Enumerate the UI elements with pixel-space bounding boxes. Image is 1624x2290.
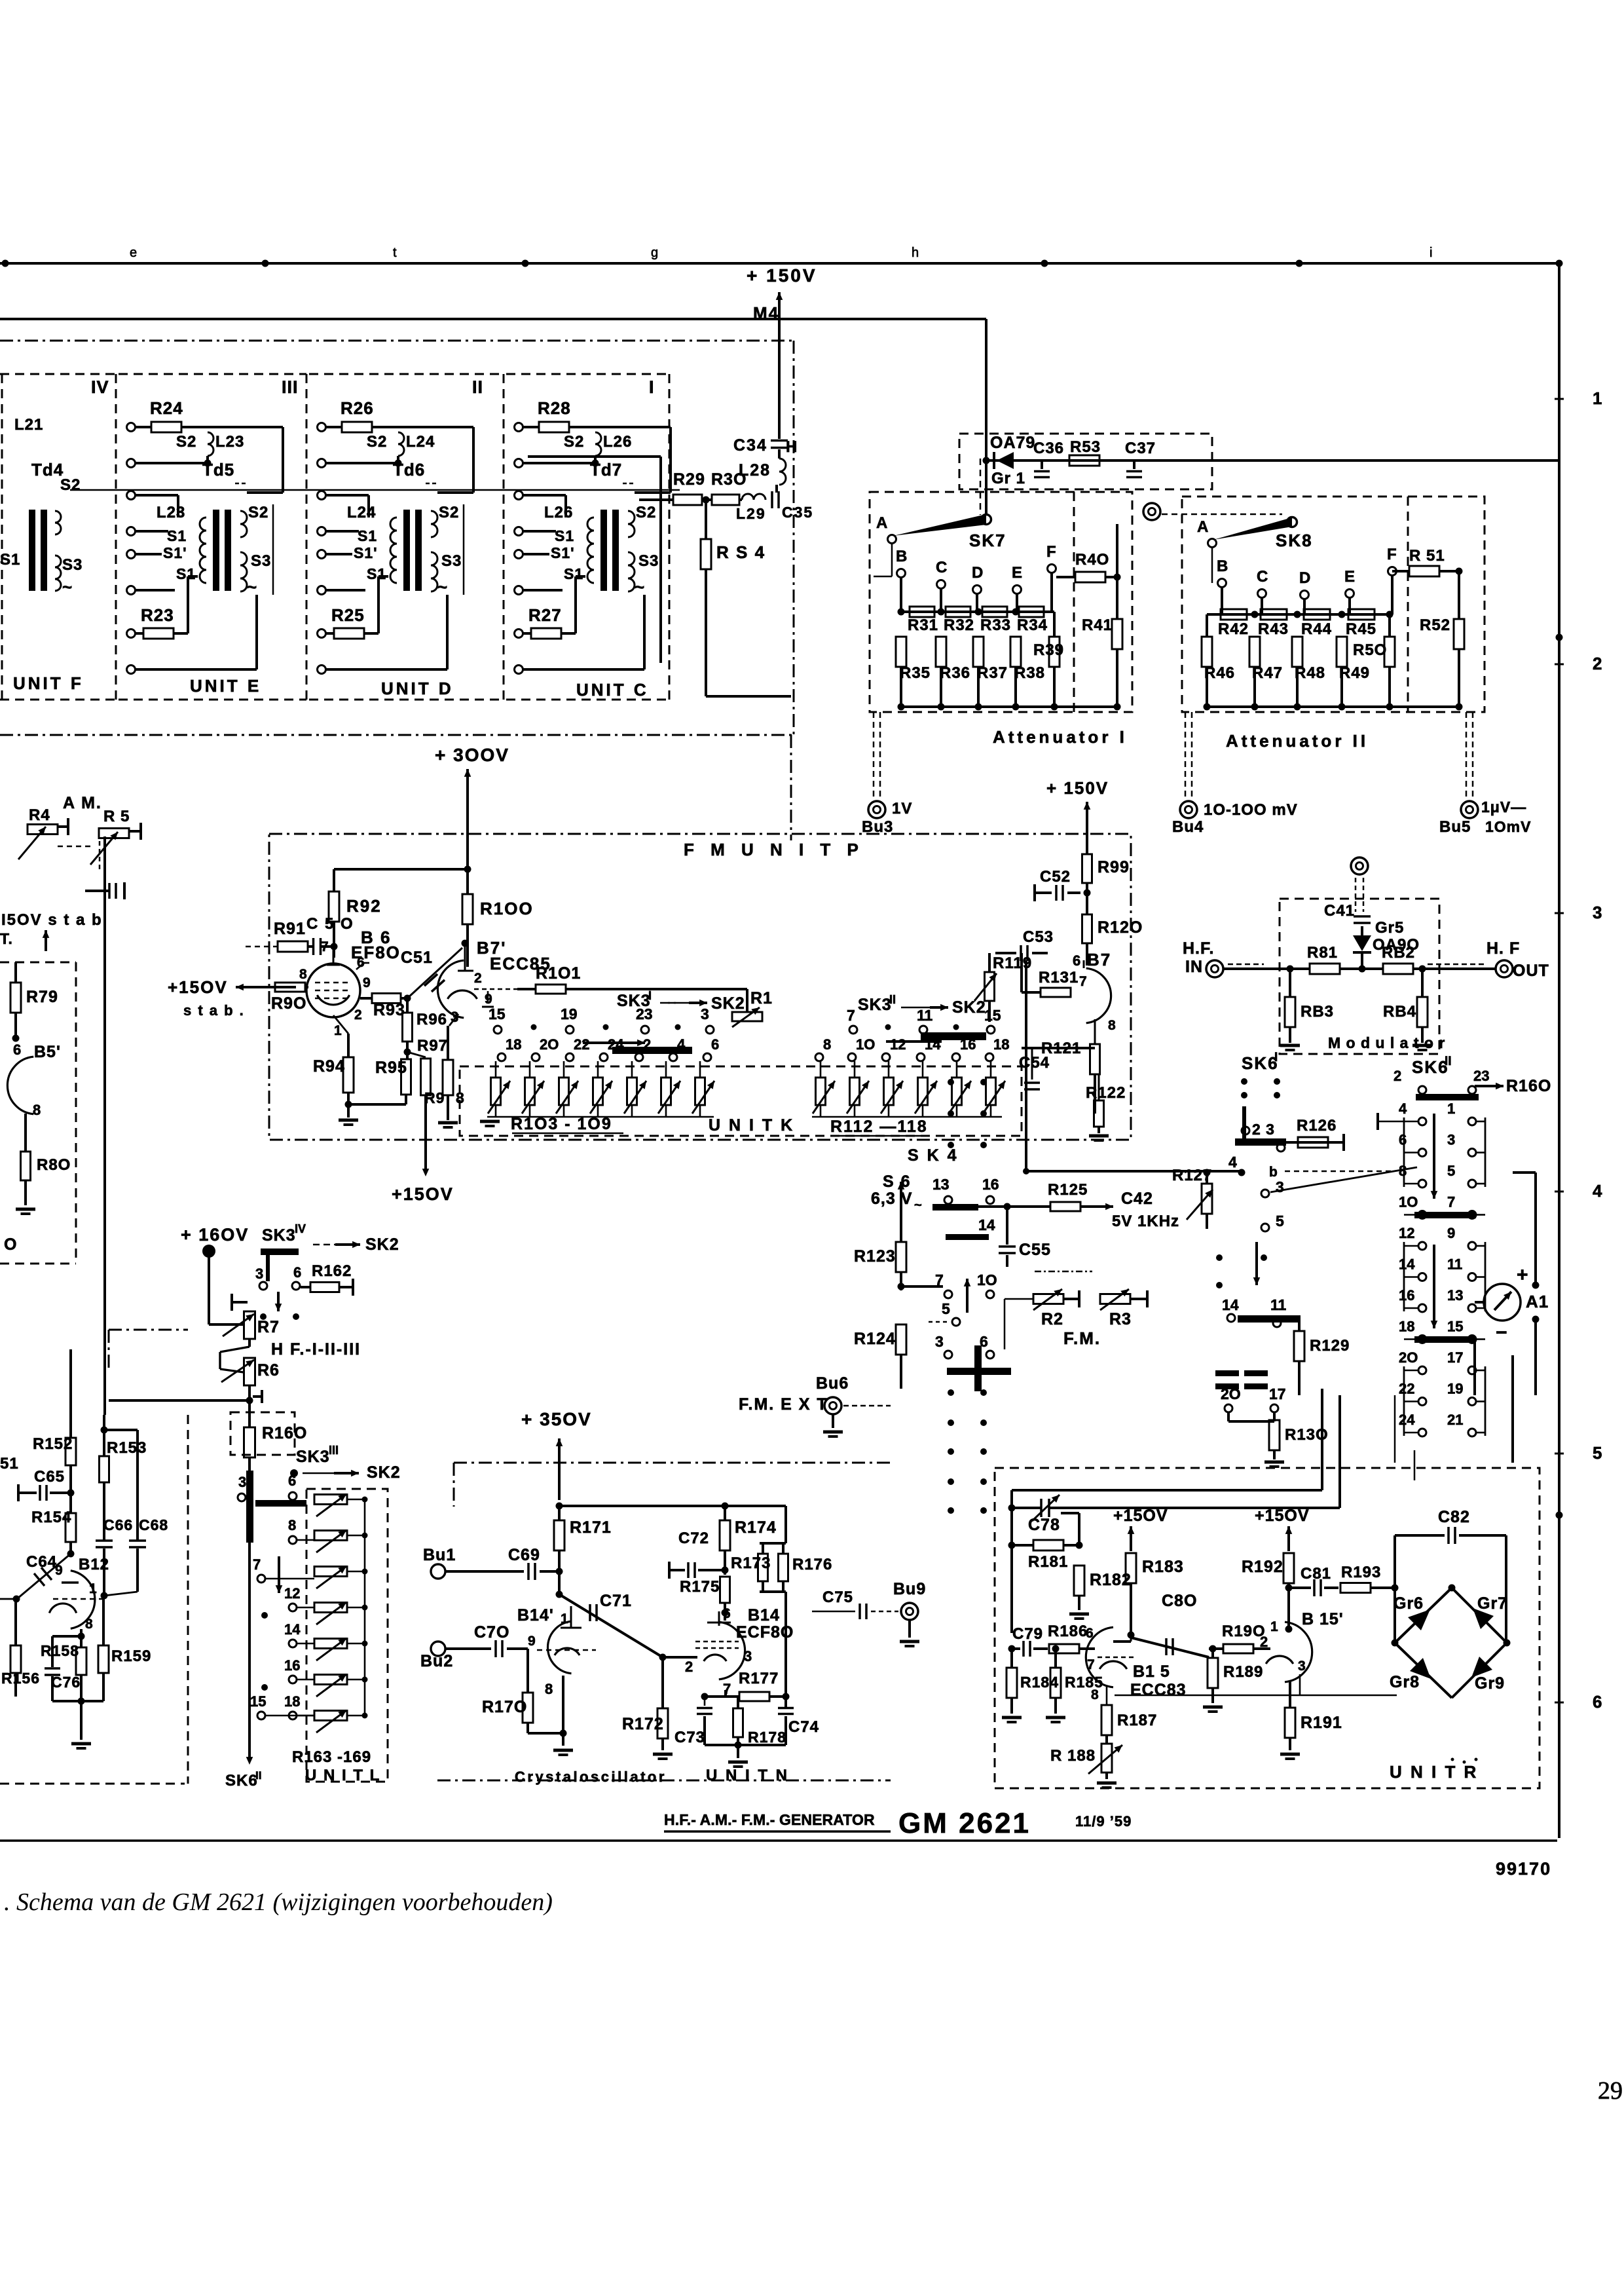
svg-text:14: 14 (1399, 1256, 1415, 1273)
svg-text:B14: B14 (748, 1606, 780, 1624)
svg-text:RB4: RB4 (1383, 1003, 1416, 1021)
svg-text:5V 1KHz: 5V 1KHz (1112, 1212, 1179, 1230)
svg-text:R49: R49 (1339, 664, 1370, 682)
svg-text:6: 6 (1399, 1132, 1407, 1148)
svg-text:R9: R9 (424, 1089, 445, 1106)
svg-text:8: 8 (85, 1617, 93, 1632)
svg-text:C73: C73 (674, 1729, 705, 1746)
svg-text:+ 150V: + 150V (1046, 778, 1109, 798)
svg-text:R24: R24 (150, 398, 183, 418)
svg-text:2: 2 (354, 1007, 362, 1023)
svg-text:S3: S3 (62, 556, 83, 574)
svg-text:R25: R25 (331, 605, 365, 625)
svg-text:7: 7 (847, 1007, 855, 1024)
svg-text:F M U N I T P: F M U N I T P (684, 840, 864, 859)
svg-text:22: 22 (1399, 1381, 1414, 1397)
svg-text:8: 8 (1108, 1018, 1116, 1033)
svg-text:S3: S3 (638, 552, 659, 570)
svg-text:C71: C71 (600, 1592, 632, 1610)
svg-text:R38: R38 (1014, 664, 1045, 682)
svg-text:OUT: OUT (1513, 962, 1549, 980)
svg-text:C79: C79 (1012, 1625, 1043, 1643)
svg-text:R123: R123 (854, 1247, 896, 1266)
svg-text:R99: R99 (1098, 858, 1130, 876)
svg-text:R162: R162 (312, 1262, 352, 1280)
svg-text:D: D (1299, 569, 1311, 587)
svg-text:L26: L26 (603, 433, 632, 451)
svg-text:Crystaloscillator: Crystaloscillator (515, 1769, 667, 1785)
svg-text:9: 9 (528, 1634, 536, 1649)
svg-text:S1: S1 (167, 527, 187, 544)
svg-text:IN: IN (1185, 958, 1203, 976)
svg-text:Bu1: Bu1 (423, 1546, 456, 1564)
svg-text:U N I T N: U N I T N (706, 1767, 789, 1784)
svg-text:R1O1: R1O1 (536, 964, 581, 983)
svg-text:Gr 1: Gr 1 (991, 470, 1025, 487)
svg-text:F.M. E X T: F.M. E X T (739, 1395, 828, 1414)
svg-text:R178: R178 (748, 1729, 786, 1746)
svg-text:C69: C69 (508, 1546, 540, 1564)
svg-text:11: 11 (917, 1007, 933, 1024)
svg-text:Td6: Td6 (393, 460, 425, 479)
svg-text:R94: R94 (313, 1057, 345, 1076)
svg-text:3: 3 (238, 1474, 246, 1490)
svg-text:R2: R2 (1041, 1310, 1063, 1328)
svg-text:1: 1 (1447, 1100, 1455, 1117)
svg-text:2: 2 (1593, 654, 1602, 673)
svg-text:R153: R153 (107, 1439, 147, 1457)
svg-text:+ 16OV: + 16OV (181, 1225, 249, 1245)
svg-text:7: 7 (1079, 974, 1087, 989)
svg-text:16: 16 (960, 1036, 976, 1053)
svg-text:R193: R193 (1341, 1564, 1381, 1581)
svg-text:U N I T R: U N I T R (1390, 1762, 1478, 1782)
svg-text:H F.-I-II-III: H F.-I-II-III (271, 1340, 361, 1359)
svg-text:S1: S1 (0, 551, 20, 569)
svg-text:S1: S1 (358, 527, 377, 544)
svg-text:SK3: SK3 (858, 996, 892, 1014)
svg-text:+15OV: +15OV (392, 1184, 454, 1204)
svg-text:R1O3 - 1O9: R1O3 - 1O9 (511, 1115, 612, 1133)
svg-text:Td5: Td5 (202, 460, 234, 479)
svg-text:A: A (876, 514, 888, 532)
svg-text:9: 9 (363, 975, 371, 990)
svg-text:Bu5: Bu5 (1439, 818, 1471, 836)
svg-text:6: 6 (293, 1264, 301, 1281)
svg-text:E: E (1012, 564, 1023, 582)
svg-text:S1': S1' (163, 544, 187, 561)
svg-text:R44: R44 (1301, 620, 1332, 638)
svg-text:R191: R191 (1301, 1714, 1342, 1732)
svg-text:s t a b .: s t a b . (183, 1002, 245, 1019)
svg-text:Bu6: Bu6 (816, 1374, 849, 1393)
svg-text:R 51: R 51 (1409, 547, 1445, 565)
svg-text:4: 4 (1228, 1154, 1237, 1171)
svg-text:B14': B14' (517, 1606, 554, 1624)
svg-text:SK7: SK7 (969, 531, 1006, 550)
svg-text:5: 5 (1276, 1212, 1284, 1229)
svg-text:R158: R158 (41, 1642, 79, 1659)
svg-text:16: 16 (982, 1176, 999, 1193)
svg-text:C78: C78 (1028, 1516, 1060, 1534)
svg-text:R31: R31 (908, 616, 938, 634)
svg-text:C51: C51 (401, 948, 433, 967)
svg-text:14: 14 (978, 1216, 995, 1233)
svg-text:23: 23 (636, 1005, 653, 1023)
svg-text:C41: C41 (1324, 902, 1355, 920)
svg-text:R186: R186 (1048, 1623, 1088, 1640)
svg-text:R156: R156 (1, 1670, 40, 1687)
svg-text:Gr8: Gr8 (1390, 1673, 1420, 1691)
svg-text:S2: S2 (636, 504, 656, 521)
svg-text:R4O: R4O (1075, 551, 1109, 569)
svg-text:C42: C42 (1121, 1190, 1153, 1208)
svg-text:F: F (1387, 546, 1397, 563)
svg-text:R19O: R19O (1222, 1623, 1266, 1640)
svg-text:R27: R27 (528, 605, 562, 625)
svg-text:SK2: SK2 (711, 994, 745, 1013)
svg-text:UNIT C: UNIT C (576, 680, 649, 700)
svg-text:R48: R48 (1295, 664, 1325, 682)
svg-text:14: 14 (925, 1036, 941, 1053)
svg-text:1: 1 (89, 1581, 97, 1596)
svg-text:5: 5 (1447, 1163, 1455, 1179)
svg-text:S2: S2 (176, 433, 196, 451)
svg-text:A1: A1 (1526, 1292, 1549, 1311)
svg-text:R183: R183 (1142, 1558, 1184, 1576)
svg-text:R154: R154 (31, 1509, 71, 1526)
svg-text:h: h (912, 246, 919, 260)
svg-text:5: 5 (942, 1300, 950, 1317)
svg-text:F.M.: F.M. (1063, 1328, 1101, 1348)
svg-text:8: 8 (299, 967, 307, 982)
svg-text:7: 7 (1447, 1194, 1455, 1211)
svg-text:1O: 1O (1399, 1194, 1418, 1211)
svg-text:−: − (1496, 1322, 1507, 1343)
svg-text:C65: C65 (34, 1468, 65, 1486)
svg-text:R3: R3 (1109, 1310, 1132, 1328)
svg-text:C34: C34 (733, 436, 767, 455)
svg-text:R33: R33 (980, 616, 1011, 634)
svg-text:15: 15 (250, 1693, 266, 1710)
svg-text:11: 11 (1447, 1256, 1462, 1273)
svg-text:SK2: SK2 (365, 1235, 399, 1254)
svg-text:Bu4: Bu4 (1172, 818, 1204, 836)
svg-text:R S 4: R S 4 (716, 542, 766, 562)
svg-text:Gr6: Gr6 (1393, 1594, 1424, 1613)
svg-text:C35: C35 (782, 504, 813, 521)
svg-text:Attenuator I: Attenuator I (993, 727, 1128, 747)
svg-text:R41: R41 (1082, 616, 1113, 634)
svg-text:3: 3 (744, 1648, 752, 1664)
svg-text:R125: R125 (1048, 1181, 1088, 1199)
svg-text:R1OO: R1OO (480, 899, 534, 918)
svg-text:16: 16 (1399, 1287, 1414, 1304)
svg-text:R37: R37 (977, 664, 1008, 682)
svg-text:C64: C64 (26, 1553, 57, 1571)
svg-text:2: 2 (685, 1659, 693, 1675)
svg-text:+: + (1517, 1264, 1528, 1286)
svg-text:7: 7 (1087, 1657, 1095, 1672)
svg-text:I: I (649, 377, 655, 397)
svg-text:A: A (1197, 518, 1209, 536)
svg-text:L24: L24 (406, 433, 435, 451)
svg-text:H.F.: H.F. (1183, 939, 1214, 958)
svg-text:24: 24 (1399, 1412, 1415, 1428)
svg-text:S1': S1' (551, 544, 575, 561)
svg-text:C36: C36 (1033, 440, 1064, 457)
svg-text:3: 3 (935, 1333, 944, 1350)
svg-text:3: 3 (1593, 903, 1602, 922)
svg-text:R174: R174 (735, 1518, 777, 1537)
svg-text:C55: C55 (1019, 1241, 1051, 1259)
svg-text:R23: R23 (141, 605, 174, 625)
svg-text:I: I (648, 989, 652, 1002)
svg-text:R7: R7 (257, 1318, 280, 1336)
svg-text:C: C (936, 559, 948, 576)
svg-text:Gr5: Gr5 (1375, 919, 1404, 937)
svg-text:R81: R81 (1307, 944, 1338, 962)
svg-text:R12O: R12O (1098, 918, 1143, 937)
svg-text:e: e (130, 246, 137, 260)
svg-text:C52: C52 (1040, 868, 1071, 886)
svg-text:7: 7 (723, 1681, 731, 1697)
svg-text:S1': S1' (354, 544, 378, 561)
svg-text:C76: C76 (51, 1674, 81, 1691)
svg-text:15: 15 (489, 1005, 506, 1023)
svg-text:R124: R124 (854, 1330, 896, 1348)
svg-text:13: 13 (1447, 1287, 1463, 1304)
svg-text:1: 1 (1593, 388, 1602, 408)
svg-text:9: 9 (1447, 1225, 1455, 1241)
svg-text:19: 19 (1447, 1381, 1463, 1397)
svg-text:C 5 O: C 5 O (306, 915, 354, 933)
svg-text:C7O: C7O (474, 1623, 509, 1642)
svg-text:R171: R171 (570, 1518, 612, 1537)
svg-text:19: 19 (561, 1005, 578, 1023)
svg-text:R184: R184 (1020, 1674, 1059, 1691)
svg-text:R28: R28 (538, 398, 571, 418)
svg-text:R52: R52 (1420, 616, 1450, 634)
svg-text:S1: S1 (564, 565, 583, 582)
svg-text:1: 1 (1270, 1619, 1278, 1634)
svg-text:6,3 V: 6,3 V (871, 1190, 912, 1208)
svg-text:R47: R47 (1252, 664, 1283, 682)
svg-text:S3: S3 (441, 552, 462, 570)
svg-text:R159: R159 (111, 1647, 151, 1665)
svg-text:~: ~ (437, 577, 447, 597)
svg-text:18: 18 (993, 1036, 1009, 1053)
svg-text:8: 8 (545, 1681, 553, 1697)
svg-text:1: 1 (561, 1611, 568, 1626)
svg-text:23: 23 (1473, 1068, 1489, 1084)
svg-text:Attenuator II: Attenuator II (1226, 731, 1369, 751)
svg-text:C66: C66 (103, 1516, 133, 1533)
svg-text:+15OV: +15OV (1113, 1507, 1168, 1525)
svg-text:Gr7: Gr7 (1477, 1594, 1507, 1613)
svg-text:15: 15 (984, 1007, 1001, 1024)
svg-text:S 6: S 6 (883, 1173, 912, 1191)
svg-text:R35: R35 (900, 664, 931, 682)
svg-text:II: II (1445, 1055, 1452, 1068)
svg-text:R96: R96 (416, 1011, 447, 1028)
svg-text:R97: R97 (417, 1037, 448, 1055)
svg-text:~: ~ (247, 577, 257, 597)
svg-text:S2: S2 (564, 433, 584, 451)
svg-text:2: 2 (474, 971, 482, 986)
svg-text:C8O: C8O (1162, 1592, 1197, 1610)
svg-text:2O: 2O (1221, 1385, 1241, 1402)
svg-text:29: 29 (1598, 2077, 1623, 2105)
svg-text:R131: R131 (1039, 969, 1079, 986)
svg-text:+ 35OV: + 35OV (521, 1409, 592, 1429)
svg-text:g: g (651, 246, 658, 260)
svg-text:R122: R122 (1086, 1084, 1126, 1102)
svg-text:15: 15 (1447, 1319, 1463, 1335)
svg-text:R177: R177 (739, 1670, 779, 1687)
svg-text:2O: 2O (540, 1036, 559, 1053)
svg-text:2: 2 (643, 1036, 651, 1053)
svg-text:R1: R1 (750, 989, 773, 1007)
svg-text:2 3: 2 3 (1252, 1121, 1275, 1138)
svg-text:R187: R187 (1117, 1712, 1157, 1729)
svg-text:b: b (1269, 1165, 1278, 1180)
svg-text:~: ~ (62, 577, 72, 597)
svg-text:i: i (1430, 246, 1432, 260)
svg-text:C53: C53 (1023, 928, 1054, 946)
svg-text:t: t (393, 246, 397, 260)
svg-text:Bu9: Bu9 (893, 1580, 926, 1598)
svg-text:. Schema van de GM 2621 (wijzi: . Schema van de GM 2621 (wijzigingen voo… (4, 1888, 553, 1916)
svg-text:R46: R46 (1204, 664, 1235, 682)
svg-text:L26: L26 (544, 504, 573, 521)
svg-text:7: 7 (253, 1556, 261, 1573)
svg-text:U N I T L: U N I T L (305, 1767, 380, 1784)
svg-text:11/9 ʼ59: 11/9 ʼ59 (1075, 1813, 1132, 1830)
svg-text:L21: L21 (14, 416, 43, 434)
svg-text:SK3: SK3 (296, 1448, 330, 1466)
svg-text:6: 6 (1073, 952, 1080, 969)
svg-text:H: H (786, 438, 797, 456)
svg-text:24: 24 (608, 1036, 624, 1053)
svg-text:I: I (1274, 1051, 1278, 1064)
svg-text:C75: C75 (822, 1588, 853, 1606)
svg-text:OA79: OA79 (990, 434, 1035, 452)
svg-text:21: 21 (1447, 1412, 1463, 1428)
svg-text:I5OV s t a b: I5OV s t a b (1, 911, 103, 929)
svg-text:51: 51 (0, 1455, 19, 1473)
svg-text:C81: C81 (1301, 1565, 1331, 1583)
svg-text:H. F: H. F (1486, 939, 1520, 958)
svg-text:1O: 1O (856, 1036, 875, 1053)
svg-text:C72: C72 (678, 1530, 709, 1547)
svg-text:S2: S2 (367, 433, 387, 451)
svg-text:R26: R26 (341, 398, 374, 418)
svg-text:R 5: R 5 (103, 808, 130, 825)
svg-text:14: 14 (1222, 1296, 1239, 1313)
svg-text:R181: R181 (1028, 1553, 1068, 1571)
svg-text:R42: R42 (1218, 620, 1249, 638)
svg-text:9: 9 (55, 1563, 63, 1578)
svg-text:R16O: R16O (262, 1424, 307, 1442)
svg-text:S1: S1 (176, 565, 196, 582)
svg-text:8: 8 (288, 1517, 296, 1533)
svg-text:SK2: SK2 (367, 1463, 401, 1482)
svg-text:R172: R172 (622, 1715, 664, 1733)
svg-text:SK3: SK3 (262, 1226, 296, 1245)
svg-text:B: B (1217, 557, 1228, 575)
svg-text:L29: L29 (736, 505, 766, 522)
svg-text:III: III (282, 377, 299, 397)
svg-text:1O: 1O (977, 1271, 997, 1288)
svg-text:SK6: SK6 (225, 1772, 258, 1790)
svg-text:3: 3 (1276, 1178, 1284, 1195)
svg-text:II: II (472, 377, 483, 397)
svg-text:L24: L24 (347, 504, 376, 521)
svg-text:C: C (1257, 568, 1268, 586)
svg-text:S K 4: S K 4 (908, 1146, 959, 1165)
svg-text:B 15': B 15' (1302, 1610, 1344, 1628)
svg-text:O: O (4, 1235, 17, 1254)
svg-text:UNIT D: UNIT D (381, 679, 454, 698)
svg-text:C54: C54 (1019, 1054, 1050, 1072)
svg-text:Td7: Td7 (590, 460, 622, 479)
svg-text:B5': B5' (34, 1043, 61, 1061)
svg-text:IV: IV (295, 1222, 306, 1235)
svg-text:R129: R129 (1310, 1337, 1350, 1355)
svg-text:L23: L23 (215, 433, 244, 451)
svg-text:R192: R192 (1242, 1558, 1283, 1576)
svg-text:S2: S2 (60, 476, 81, 494)
svg-text:R43: R43 (1258, 620, 1289, 638)
svg-text:R53: R53 (1070, 438, 1101, 456)
svg-text:R95: R95 (375, 1059, 407, 1077)
svg-text:Gr9: Gr9 (1475, 1674, 1505, 1693)
svg-text:3: 3 (255, 1266, 263, 1282)
svg-text:RB3: RB3 (1301, 1003, 1334, 1021)
svg-text:99170: 99170 (1496, 1859, 1551, 1879)
svg-text:T.: T. (0, 930, 13, 947)
svg-text:16: 16 (284, 1657, 300, 1674)
svg-text:S3: S3 (251, 552, 271, 570)
svg-text:6: 6 (1593, 1692, 1602, 1712)
svg-text:B: B (896, 548, 908, 565)
svg-text:UNIT F: UNIT F (13, 673, 84, 693)
svg-text:R3O: R3O (711, 470, 747, 489)
svg-text:17: 17 (1269, 1385, 1286, 1402)
svg-text:F: F (1046, 543, 1057, 561)
svg-text:14: 14 (284, 1621, 301, 1638)
svg-text:1OmV: 1OmV (1485, 818, 1531, 835)
svg-text:R119: R119 (993, 954, 1032, 972)
svg-text:11: 11 (1270, 1296, 1287, 1313)
svg-text:R93: R93 (373, 1001, 405, 1019)
svg-text:C68: C68 (139, 1516, 168, 1533)
svg-text:7: 7 (321, 939, 329, 954)
svg-text:R8O: R8O (37, 1156, 71, 1174)
svg-text:12: 12 (284, 1585, 300, 1602)
svg-text:M4: M4 (753, 303, 779, 323)
svg-text:B7: B7 (1087, 950, 1111, 969)
svg-text:R126: R126 (1297, 1117, 1337, 1135)
svg-text:M o d u l a t o r: M o d u l a t o r (1328, 1034, 1445, 1051)
svg-text:R39: R39 (1033, 641, 1064, 659)
svg-text:ECC83: ECC83 (1130, 1681, 1187, 1699)
svg-text:R5O: R5O (1353, 641, 1387, 659)
svg-text:R175: R175 (680, 1578, 720, 1596)
svg-text:4: 4 (677, 1036, 686, 1053)
svg-text:+15OV: +15OV (168, 977, 228, 997)
